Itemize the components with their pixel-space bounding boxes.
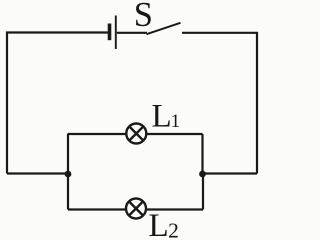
- lamp L1: [126, 124, 146, 144]
- wire: L2 branch right vertical: [202, 174, 204, 210]
- battery B1 (cell): [110, 16, 116, 50]
- lamp L2: [126, 199, 146, 219]
- wire: right middle horizontal to right junction: [203, 172, 258, 174]
- wire: L1 branch left vertical: [67, 134, 69, 175]
- wire: left middle horizontal to left junction: [7, 172, 68, 174]
- wire: switch right contact to top-right corner and down right side: [182, 33, 257, 174]
- switch S (open blade): [147, 23, 181, 34]
- wire: L1 branch right horizontal: [147, 133, 203, 135]
- wire: top-left segment from left corner to battery: [7, 33, 108, 174]
- wire: L2 branch right horizontal: [146, 208, 203, 210]
- wire: L2 branch left horizontal: [68, 208, 126, 210]
- wire: L2 branch left vertical: [67, 174, 69, 210]
- wire: L1 branch left horizontal: [68, 133, 126, 135]
- node: right junction dot: [199, 171, 206, 178]
- node: left junction dot: [65, 171, 72, 178]
- wire: L1 branch right vertical: [201, 134, 203, 174]
- svg-text:S: S: [134, 0, 153, 34]
- wire: battery to switch left contact: [117, 32, 147, 34]
